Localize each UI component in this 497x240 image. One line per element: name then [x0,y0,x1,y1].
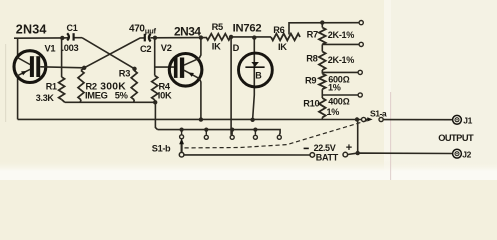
svg-text:.003: .003 [62,43,79,53]
svg-text:BATT: BATT [316,152,339,162]
svg-text:S1-a: S1-a [370,108,387,118]
svg-text:V2: V2 [161,43,172,53]
svg-text:R5: R5 [212,22,223,32]
svg-text:2N34: 2N34 [16,23,47,37]
svg-text:J1: J1 [463,115,472,125]
svg-text:I0K: I0K [158,90,172,100]
svg-text:R7: R7 [307,30,318,40]
svg-text:D: D [233,43,240,53]
svg-text:3.3K: 3.3K [36,93,55,103]
svg-text:V1: V1 [45,43,56,53]
svg-text:R8: R8 [306,53,317,63]
svg-text:2N34: 2N34 [174,24,201,38]
svg-text:IN762: IN762 [233,23,262,35]
svg-text:S1-b: S1-b [152,143,171,153]
svg-text:470: 470 [129,24,145,35]
svg-text:IMEG: IMEG [85,91,108,101]
svg-text:OUTPUT: OUTPUT [438,133,474,143]
svg-text:1%: 1% [328,82,341,92]
svg-text:R6: R6 [273,25,284,35]
svg-text:IK: IK [278,42,287,52]
svg-text:R10: R10 [303,99,319,109]
svg-text:C2: C2 [140,44,151,54]
svg-text:+: + [346,142,352,154]
svg-text:R9: R9 [305,75,316,85]
svg-text:2K-1%: 2K-1% [328,30,355,40]
svg-text:R1: R1 [46,81,57,91]
svg-text:1%: 1% [327,107,340,117]
svg-text:2K-1%: 2K-1% [328,55,355,65]
svg-text:μμf: μμf [145,26,157,35]
svg-text:R3: R3 [119,69,130,79]
svg-text:5%: 5% [115,91,129,101]
svg-text:C1: C1 [67,23,78,33]
svg-text:IK: IK [212,41,221,51]
svg-text:400Ω: 400Ω [328,97,349,107]
svg-text:J2: J2 [462,150,471,160]
svg-text:B: B [255,70,262,80]
